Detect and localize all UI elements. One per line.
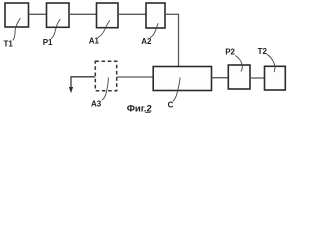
svg-text:C: C bbox=[168, 100, 174, 109]
leader C bbox=[173, 78, 180, 102]
block A3 (dashed) bbox=[95, 61, 116, 90]
wire P1-A1 bbox=[69, 13, 97, 15]
caption underline bbox=[145, 112, 151, 114]
block P2 bbox=[228, 65, 250, 89]
leader P1 bbox=[51, 19, 60, 39]
wire A1-A2 bbox=[118, 13, 146, 15]
leader T1 bbox=[13, 18, 20, 40]
svg-text:T1: T1 bbox=[4, 39, 14, 48]
leader A3 bbox=[102, 78, 109, 101]
leader A1 bbox=[98, 20, 110, 37]
wire corner down to C bbox=[178, 14, 180, 67]
svg-text:P2: P2 bbox=[225, 48, 235, 57]
wire A2 to corner bbox=[165, 13, 179, 15]
block A2 bbox=[146, 3, 165, 28]
svg-text:P1: P1 bbox=[43, 38, 53, 47]
arrow output bbox=[70, 77, 72, 88]
wire C-P2 bbox=[212, 77, 229, 79]
leader T2 bbox=[267, 54, 275, 72]
svg-text:A2: A2 bbox=[141, 37, 152, 46]
svg-text:T2: T2 bbox=[258, 47, 268, 56]
svg-text:A3: A3 bbox=[91, 100, 102, 109]
wire A3-C bbox=[117, 76, 154, 78]
wire P2-T2 bbox=[250, 77, 265, 79]
block P1 bbox=[47, 3, 70, 27]
leader A2 bbox=[150, 23, 158, 38]
leader P2 bbox=[235, 56, 242, 72]
block C bbox=[153, 67, 211, 91]
wire arrow corner to A3 bbox=[70, 76, 95, 78]
block T1 bbox=[5, 3, 29, 27]
block A1 bbox=[97, 3, 119, 28]
svg-text:A1: A1 bbox=[89, 37, 100, 46]
block T2 bbox=[265, 66, 286, 90]
wire T1-P1 bbox=[29, 13, 47, 15]
